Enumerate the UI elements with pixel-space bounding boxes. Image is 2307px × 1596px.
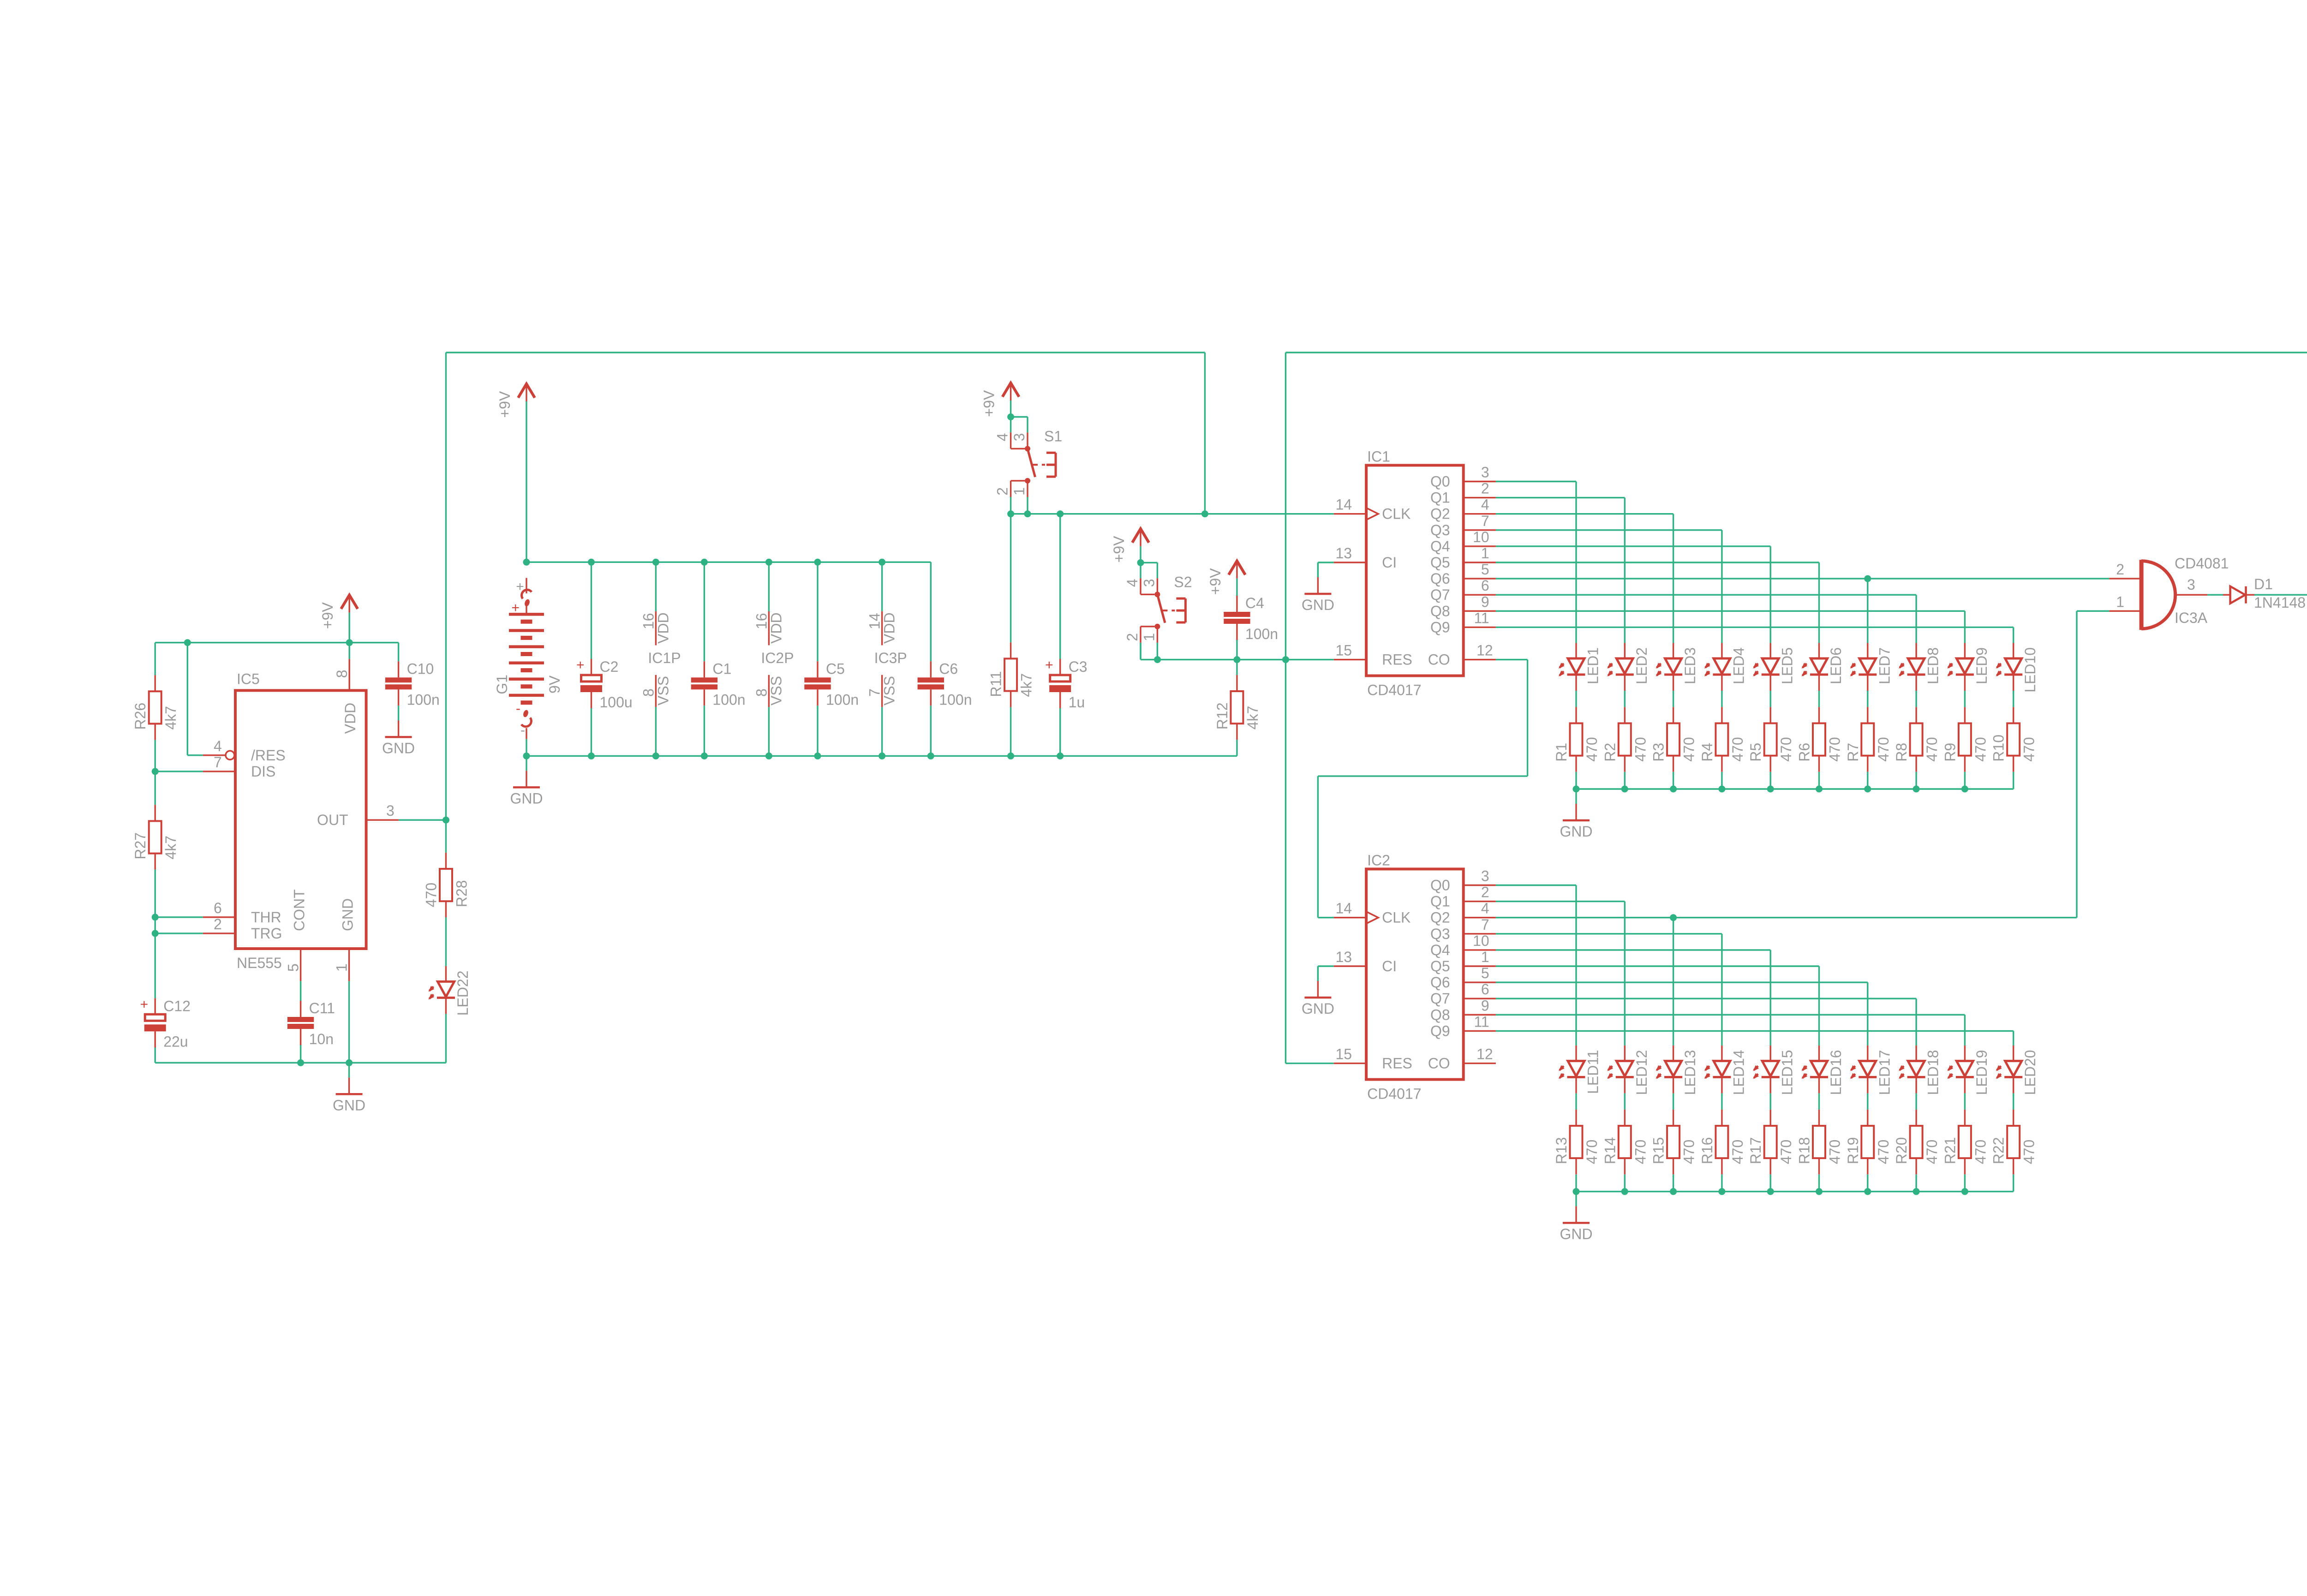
junction [152,768,159,775]
svg-text:CLK: CLK [1382,506,1410,522]
svg-text:C2: C2 [600,658,619,675]
wire LED9 to R9 [1964,691,1966,707]
svg-text:13: 13 [1336,545,1352,562]
junction [1864,575,1871,582]
wire R21 to rail [1964,1174,1966,1191]
wire R7 to rail [1867,772,1868,789]
svg-text:8: 8 [334,670,350,678]
svg-text:IC2: IC2 [1367,852,1390,868]
junction [701,559,708,566]
svg-text:470: 470 [1924,737,1940,761]
LED LED15 [1751,1046,1796,1095]
switch S2 [1124,562,1192,659]
svg-text:LED3: LED3 [1682,647,1698,684]
svg-text:LED22: LED22 [454,970,471,1016]
svg-text:2: 2 [1481,480,1489,497]
wire LED17 to R19 [1867,1093,1868,1109]
wire C4 to RES rail [1236,640,1237,660]
svg-text:D1: D1 [2254,576,2273,592]
wire pin1 to rail [348,981,350,1063]
svg-text:C5: C5 [826,660,845,677]
LED LED7 [1848,643,1893,691]
wire R20 to rail [1915,1174,1917,1191]
resistor R1 470 [1553,707,1600,771]
wire gate output to D1 [2207,594,2223,595]
svg-text:Q4: Q4 [1430,538,1450,555]
wire LED8 to R8 [1915,691,1917,707]
wire RES to R12 [1236,660,1237,675]
svg-text:R5: R5 [1747,743,1764,762]
LED LED10 [1994,643,2038,693]
junction [1864,786,1871,793]
junction [184,639,191,646]
svg-text:C1: C1 [712,660,731,677]
wire TRG net [155,917,156,933]
wire GND power rail [526,755,1237,757]
battery G1 9V [494,578,563,739]
svg-text:IC3P: IC3P [874,650,907,666]
svg-text:470: 470 [1875,737,1892,761]
svg-text:R8: R8 [1893,743,1910,762]
svg-text:LED5: LED5 [1779,647,1796,684]
junction [1670,786,1677,793]
diode D1 1N4148 [2223,576,2306,611]
junction [523,753,530,759]
svg-text:CONT: CONT [291,889,308,931]
capacitor C2 100u (polarized) [576,658,633,711]
junction [297,1059,304,1066]
junction [1621,786,1628,793]
power pins IC2P [753,611,794,707]
wire R4 to rail [1721,772,1722,789]
wire R28 to LED22 [445,917,447,966]
wire IC1 Q6 to LED7 [1496,578,1868,579]
wire IC2 Q1 to LED12 [1496,901,1625,902]
svg-text:LED2: LED2 [1633,647,1650,684]
LED LED19 [1946,1046,1990,1095]
svg-text:100n: 100n [939,691,972,708]
junction [1816,786,1823,793]
svg-text:LED6: LED6 [1828,647,1844,684]
wire +9V power rail [526,562,931,563]
capacitor C6 100n [918,660,972,708]
svg-text:NE555: NE555 [237,955,282,971]
resistor R15 470 [1650,1110,1697,1174]
wire THR net [155,870,156,917]
svg-text:Q1: Q1 [1430,893,1450,910]
junction [701,753,708,759]
LED LED2 [1606,643,1650,691]
wire IC1P top [655,562,657,611]
svg-text:R12: R12 [1214,702,1231,729]
svg-text:R20: R20 [1893,1137,1910,1164]
junction [442,817,449,824]
svg-text:2: 2 [214,916,222,932]
svg-text:470: 470 [1729,1140,1746,1164]
junction [765,559,772,566]
wire IC3P top [881,562,883,611]
svg-text:1: 1 [2116,593,2124,610]
wire LED20 to R22 [2013,1093,2014,1109]
svg-text:LED18: LED18 [1925,1050,1942,1095]
resistor R10 470 [1990,707,2038,771]
svg-text:5: 5 [285,963,302,972]
svg-text:R9: R9 [1942,743,1958,762]
junction [346,639,353,646]
wire LED1 to R1 [1575,691,1577,707]
svg-text:7: 7 [214,754,222,771]
svg-text:Q3: Q3 [1430,926,1450,942]
svg-text:S1: S1 [1044,428,1062,444]
capacitor C10 100n [385,660,440,708]
capacitor C4 100n [1224,595,1278,642]
wire R13 to rail [1575,1174,1577,1191]
svg-text:470: 470 [1681,1140,1697,1164]
svg-text:GND: GND [1302,1000,1334,1017]
wire IC1 Q8 to LED9 [1496,610,1965,612]
wire IC1 CI to ground [1318,562,1333,563]
LED LED17 [1848,1046,1893,1095]
wire LED2 to R2 [1624,691,1626,707]
svg-text:LED16: LED16 [1828,1050,1844,1095]
svg-text:R16: R16 [1699,1137,1715,1164]
svg-text:Q8: Q8 [1430,1006,1450,1023]
wire C3 top [1059,514,1061,659]
svg-text:470: 470 [1681,737,1697,761]
wire LED18 to R20 [1915,1093,1917,1109]
capacitor C3 1u (polarized) [1045,658,1087,711]
wire IC1 Q2 to LED3 [1496,513,1673,514]
wire IC2 Q0 to LED11 [1496,885,1576,886]
svg-text:470: 470 [2021,1140,2038,1164]
svg-text:1: 1 [334,963,350,972]
svg-text:Q7: Q7 [1430,586,1450,603]
svg-text:9: 9 [1481,593,1489,610]
junction [1233,656,1240,663]
svg-text:470: 470 [1632,737,1649,761]
wire C5 top [817,562,818,661]
svg-text:6: 6 [214,900,222,916]
svg-text:CD4081: CD4081 [2175,555,2229,572]
+9V supply [319,595,358,643]
wire LED10 to R10 [2013,691,2014,707]
wire LED16 to R18 [1818,1093,1820,1109]
svg-text:LED20: LED20 [2022,1050,2038,1095]
svg-text:R6: R6 [1796,743,1813,762]
wire R8 to rail [1915,772,1917,789]
ground [333,1063,365,1113]
wire R18 to rail [1818,1174,1820,1191]
junction [1670,1188,1677,1195]
wire DIS net [155,740,156,771]
junction [652,559,659,566]
svg-text:2: 2 [2116,561,2124,578]
wire LED row2 ground rail [1576,1191,2014,1192]
wire IC5 ground rail [155,1046,156,1063]
svg-text:+9V: +9V [319,602,336,629]
svg-text:VDD: VDD [881,612,898,644]
+9V supply [981,383,1019,417]
counter IC1 CD4017 [1334,448,1496,698]
wire LED row1 ground rail [1576,788,2014,789]
svg-text:1N4148: 1N4148 [2254,594,2306,611]
wire LED12 to R14 [1624,1093,1626,1109]
wire OUT to R28 [445,820,447,853]
svg-text:10: 10 [1473,529,1489,545]
svg-text:470: 470 [1924,1140,1940,1164]
wire LED14 to R16 [1721,1093,1722,1109]
junction [1621,1188,1628,1195]
svg-text:Q2: Q2 [1430,909,1450,926]
svg-text:22u: 22u [163,1033,188,1050]
svg-text:LED13: LED13 [1682,1050,1698,1095]
svg-text:IC5: IC5 [237,670,260,687]
svg-text:CD4017: CD4017 [1367,682,1421,699]
svg-text:LED12: LED12 [1633,1050,1650,1095]
junction [652,753,659,759]
svg-text:2: 2 [1124,633,1141,641]
resistor R5 470 [1747,707,1794,771]
svg-text:Q5: Q5 [1430,958,1450,974]
svg-text:3: 3 [1481,464,1489,481]
svg-text:IC1: IC1 [1367,448,1390,465]
wire OUT net [399,819,446,820]
wire IC5 +9V rail [155,642,398,643]
ground [1302,562,1334,613]
wire /RES jog [187,643,188,755]
wire IC1P bottom [655,707,657,756]
wire CLK rail [1011,513,1334,514]
svg-text:R17: R17 [1747,1137,1764,1164]
resistor R18 470 [1796,1110,1843,1174]
wire LED6 to R6 [1818,691,1820,707]
svg-text:IC2P: IC2P [761,650,794,666]
wire IC2 Q6 to LED17 [1496,981,1868,983]
junction [1282,656,1289,663]
svg-text:16: 16 [640,613,657,629]
wire LED7 to R7 [1867,691,1868,707]
junction [814,559,821,566]
svg-text:R10: R10 [1990,735,2007,762]
svg-text:13: 13 [1336,949,1352,965]
svg-text:15: 15 [1336,1046,1352,1063]
wire C6 top [930,562,932,661]
svg-text:CI: CI [1382,958,1397,974]
resistor R19 470 [1845,1110,1892,1174]
svg-text:14: 14 [1336,900,1352,917]
wire R9 to rail [1964,772,1966,789]
svg-text:+9V: +9V [1111,536,1127,562]
wire IC1 Q5 to LED6 [1496,562,1819,563]
LED LED16 [1800,1046,1844,1095]
svg-text:LED4: LED4 [1730,647,1747,684]
svg-text:7: 7 [1481,916,1489,933]
svg-text:11: 11 [1474,610,1489,626]
wire IC2 Q2 to LED13 [1496,917,1673,918]
LED LED18 [1897,1046,1942,1095]
resistor R26 4k7 [132,675,179,740]
wire LED22 to rail [445,1014,447,1063]
junction [152,914,159,921]
wire LED13 to R15 [1673,1093,1674,1109]
wire R19 to rail [1867,1174,1868,1191]
junction [879,753,885,759]
wire IC2 Q7 to LED18 [1496,998,1916,999]
svg-text:3: 3 [386,802,394,819]
resistor R8 470 [1893,707,1940,771]
resistor R16 470 [1699,1110,1746,1174]
svg-text:GND: GND [1560,823,1592,840]
+9V supply [1207,561,1245,596]
svg-text:S2: S2 [1174,574,1192,590]
svg-text:R21: R21 [1942,1137,1958,1164]
wire LED4 to R4 [1721,691,1722,707]
resistor R6 470 [1796,707,1843,771]
junction [1961,786,1968,793]
resistor R4 470 [1699,707,1746,771]
junction [588,559,595,566]
wire C11 to rail [300,1045,301,1063]
junction [1864,1188,1871,1195]
wire C1 top [704,562,705,661]
wire R1 to rail [1575,772,1577,789]
svg-text:+: + [516,579,524,594]
junction [814,753,821,759]
junction [1767,786,1774,793]
svg-text:-: - [516,701,520,716]
wire IC1 CO cascade [1496,659,1528,660]
ground [1560,1191,1592,1242]
junction [1913,786,1920,793]
svg-text:3: 3 [1141,579,1157,587]
capacitor C5 100n [804,660,859,708]
wire loop B riser [1285,353,1286,1064]
svg-text:Q9: Q9 [1430,619,1450,635]
svg-text:LED8: LED8 [1925,647,1942,684]
wire IC1 Q0 to LED1 [1496,481,1576,482]
svg-text:16: 16 [753,613,770,629]
+9V supply [1111,529,1149,563]
svg-text:+9V: +9V [1207,568,1224,595]
wire S2 to RES rail [1140,643,1141,660]
svg-text:100u: 100u [600,694,633,711]
resistor R2 470 [1602,707,1649,771]
svg-text:GND: GND [1302,597,1334,613]
junction [1767,1188,1774,1195]
capacitor C1 100n [691,660,746,708]
wire riser to IC2 RES [1285,1063,1333,1064]
wire C12 feed [155,933,156,998]
svg-text:Q5: Q5 [1430,554,1450,571]
svg-text:1u: 1u [1069,694,1085,711]
svg-text:LED17: LED17 [1876,1050,1893,1095]
svg-text:+: + [140,997,149,1012]
svg-text:4: 4 [1481,900,1489,917]
svg-text:IC3A: IC3A [2175,610,2208,626]
svg-text:2: 2 [994,487,1011,496]
svg-text:R7: R7 [1845,743,1861,762]
wire C1 bottom [704,705,705,756]
svg-text:CO: CO [1428,652,1450,668]
svg-text:LED10: LED10 [2022,647,2038,693]
svg-text:R2: R2 [1602,743,1618,762]
svg-text:8: 8 [640,688,657,697]
svg-text:14: 14 [1336,496,1352,513]
svg-text:100n: 100n [712,691,745,708]
svg-text:12: 12 [1476,642,1493,659]
svg-text:2: 2 [1481,884,1489,901]
svg-text:4: 4 [994,433,1011,442]
svg-text:470: 470 [1972,737,1989,761]
svg-text:11: 11 [1474,1013,1489,1030]
svg-text:Q3: Q3 [1430,522,1450,538]
svg-text:G1: G1 [494,675,510,694]
svg-text:R19: R19 [1845,1137,1861,1164]
svg-text:GND: GND [1560,1225,1592,1242]
svg-text:C3: C3 [1069,658,1088,675]
junction [1816,1188,1823,1195]
svg-text:10n: 10n [309,1031,334,1047]
svg-text:R14: R14 [1602,1137,1618,1164]
LED LED22 [427,966,471,1016]
wire R3 to rail [1673,772,1674,789]
resistor R11 4k7 [988,642,1035,707]
wire battery top [526,401,527,562]
svg-text:7: 7 [1481,513,1489,529]
svg-text:3: 3 [1481,868,1489,885]
svg-text:CO: CO [1428,1055,1450,1072]
+9V supply [496,384,535,418]
svg-text:R15: R15 [1650,1137,1667,1164]
junction [152,930,159,937]
svg-text:LED11: LED11 [1585,1050,1602,1094]
wire IC2P top [768,562,770,611]
switch S1 [994,417,1063,514]
svg-text:6: 6 [1481,577,1489,594]
svg-text:R28: R28 [454,880,470,907]
wire IC2 Q2 tap to gate [1673,917,2077,918]
wire top loop B [1285,352,2307,353]
resistor R20 470 [1893,1110,1940,1174]
resistor R27 4k7 [132,805,179,869]
op-amp timer IC5 NE555 [203,659,399,981]
wire R2 to rail [1624,772,1626,789]
svg-text:CLK: CLK [1382,909,1410,926]
wire IC1 Q9 to LED10 [1496,627,2014,628]
LED LED6 [1800,643,1844,691]
resistor R12 4k7 [1214,675,1261,740]
svg-text:R22: R22 [1990,1137,2007,1164]
svg-text:+9V: +9V [981,390,998,417]
wire IC2 Q5 to LED16 [1496,965,1819,967]
svg-text:100n: 100n [1245,626,1278,642]
svg-text:VSS: VSS [881,676,898,705]
LED LED4 [1703,643,1747,691]
svg-text:470: 470 [1584,1140,1600,1164]
wire C3 bottom [1059,708,1061,756]
svg-text:R1: R1 [1553,743,1570,762]
wire R14 to rail [1624,1174,1626,1191]
junction [1961,1188,1968,1195]
svg-text:4k7: 4k7 [1018,673,1035,697]
resistor R22 470 [1990,1110,2038,1174]
svg-text:R4: R4 [1699,743,1715,762]
wire IC2 Q4 to LED15 [1496,949,1770,950]
resistor R9 470 [1942,707,1989,771]
svg-text:Q0: Q0 [1430,473,1450,490]
svg-text:+9V: +9V [496,391,513,418]
LED LED20 [1994,1046,2038,1095]
